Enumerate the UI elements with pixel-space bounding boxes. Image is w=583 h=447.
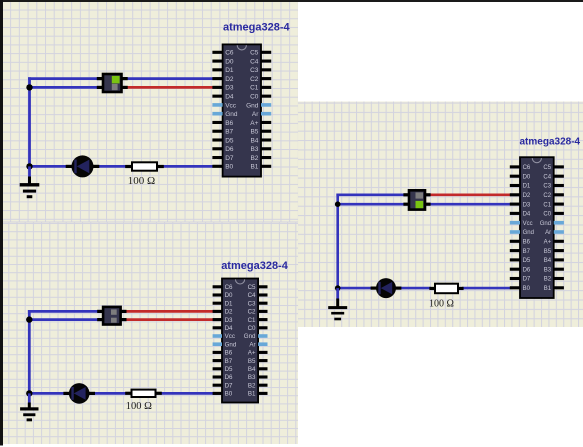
svg-text:Gnd: Gnd bbox=[225, 341, 237, 348]
svg-text:B7: B7 bbox=[225, 358, 233, 365]
svg-text:D6: D6 bbox=[225, 146, 234, 153]
svg-text:B4: B4 bbox=[544, 258, 552, 264]
svg-text:B1: B1 bbox=[248, 391, 256, 398]
svg-text:C4: C4 bbox=[543, 174, 551, 180]
svg-text:B0: B0 bbox=[225, 391, 233, 398]
svg-text:D2: D2 bbox=[225, 76, 234, 83]
svg-text:B6: B6 bbox=[225, 120, 233, 127]
svg-text:D7: D7 bbox=[225, 155, 234, 162]
svg-text:C2: C2 bbox=[248, 309, 256, 316]
svg-text:B3: B3 bbox=[544, 267, 552, 273]
svg-text:atmega328-4: atmega328-4 bbox=[520, 136, 581, 147]
svg-text:D0: D0 bbox=[225, 292, 233, 299]
svg-text:C0: C0 bbox=[248, 325, 256, 332]
svg-text:B2: B2 bbox=[248, 382, 256, 389]
svg-text:C1: C1 bbox=[543, 202, 551, 208]
svg-text:Ar: Ar bbox=[252, 111, 259, 118]
svg-text:D1: D1 bbox=[225, 67, 234, 74]
svg-text:C2: C2 bbox=[543, 193, 551, 199]
svg-text:C4: C4 bbox=[250, 58, 259, 65]
svg-text:B5: B5 bbox=[248, 358, 256, 365]
svg-text:C1: C1 bbox=[248, 317, 256, 324]
svg-text:C3: C3 bbox=[248, 300, 256, 307]
svg-text:D0: D0 bbox=[225, 58, 234, 65]
svg-text:B5: B5 bbox=[250, 129, 258, 136]
svg-text:B2: B2 bbox=[250, 155, 258, 162]
svg-text:C1: C1 bbox=[250, 85, 259, 92]
svg-text:100 Ω: 100 Ω bbox=[429, 299, 454, 310]
svg-text:100 Ω: 100 Ω bbox=[126, 401, 152, 412]
svg-text:B6: B6 bbox=[523, 239, 531, 245]
svg-text:D6: D6 bbox=[225, 374, 233, 381]
svg-text:B3: B3 bbox=[250, 146, 258, 153]
svg-text:D3: D3 bbox=[225, 85, 234, 92]
svg-text:B2: B2 bbox=[544, 277, 552, 283]
svg-text:Vcc: Vcc bbox=[225, 102, 237, 109]
svg-text:D2: D2 bbox=[523, 193, 531, 199]
svg-text:D2: D2 bbox=[225, 309, 233, 316]
svg-text:C3: C3 bbox=[543, 184, 551, 190]
svg-text:D3: D3 bbox=[523, 202, 531, 208]
svg-text:D1: D1 bbox=[523, 184, 531, 190]
svg-text:Gnd: Gnd bbox=[244, 333, 256, 340]
svg-text:atmega328-4: atmega328-4 bbox=[221, 260, 289, 272]
svg-text:C0: C0 bbox=[543, 212, 551, 218]
svg-text:D1: D1 bbox=[225, 300, 233, 307]
svg-text:D6: D6 bbox=[523, 267, 531, 273]
svg-text:Ar: Ar bbox=[249, 341, 255, 348]
svg-text:B4: B4 bbox=[250, 137, 258, 144]
svg-text:B7: B7 bbox=[523, 249, 531, 255]
svg-text:B0: B0 bbox=[225, 164, 233, 171]
svg-text:B1: B1 bbox=[544, 286, 552, 292]
svg-text:C6: C6 bbox=[225, 50, 234, 57]
svg-text:B3: B3 bbox=[248, 374, 256, 381]
svg-text:Gnd: Gnd bbox=[225, 111, 238, 118]
svg-text:D5: D5 bbox=[523, 258, 531, 264]
svg-text:D5: D5 bbox=[225, 366, 233, 373]
svg-text:Vcc: Vcc bbox=[523, 221, 533, 227]
svg-text:B7: B7 bbox=[225, 129, 233, 136]
svg-text:C4: C4 bbox=[248, 292, 256, 299]
svg-text:C6: C6 bbox=[523, 165, 531, 171]
svg-text:D4: D4 bbox=[225, 93, 234, 100]
svg-text:C5: C5 bbox=[543, 165, 551, 171]
svg-text:D4: D4 bbox=[225, 325, 233, 332]
svg-text:B6: B6 bbox=[225, 350, 233, 357]
svg-text:D5: D5 bbox=[225, 137, 234, 144]
svg-text:D7: D7 bbox=[523, 277, 531, 283]
svg-text:C6: C6 bbox=[225, 284, 233, 291]
svg-text:C2: C2 bbox=[250, 76, 259, 83]
svg-text:Vcc: Vcc bbox=[225, 333, 235, 340]
svg-text:D3: D3 bbox=[225, 317, 233, 324]
svg-text:B1: B1 bbox=[250, 164, 258, 171]
svg-text:Gnd: Gnd bbox=[246, 102, 259, 109]
svg-text:C0: C0 bbox=[250, 93, 259, 100]
svg-text:Ar: Ar bbox=[545, 230, 551, 236]
svg-text:C5: C5 bbox=[248, 284, 256, 291]
svg-text:B4: B4 bbox=[248, 366, 256, 373]
svg-text:A+: A+ bbox=[544, 239, 552, 245]
svg-text:D7: D7 bbox=[225, 382, 233, 389]
svg-text:D4: D4 bbox=[523, 212, 531, 218]
svg-text:C5: C5 bbox=[250, 50, 259, 57]
svg-text:B0: B0 bbox=[523, 286, 531, 292]
svg-text:B5: B5 bbox=[544, 249, 552, 255]
svg-text:A+: A+ bbox=[248, 350, 256, 357]
svg-text:Gnd: Gnd bbox=[523, 230, 534, 236]
svg-text:100 Ω: 100 Ω bbox=[128, 175, 155, 187]
svg-text:D0: D0 bbox=[523, 174, 531, 180]
svg-text:Gnd: Gnd bbox=[540, 221, 551, 227]
svg-text:atmega328-4: atmega328-4 bbox=[223, 22, 291, 34]
svg-text:A+: A+ bbox=[250, 120, 258, 127]
svg-text:C3: C3 bbox=[250, 67, 259, 74]
